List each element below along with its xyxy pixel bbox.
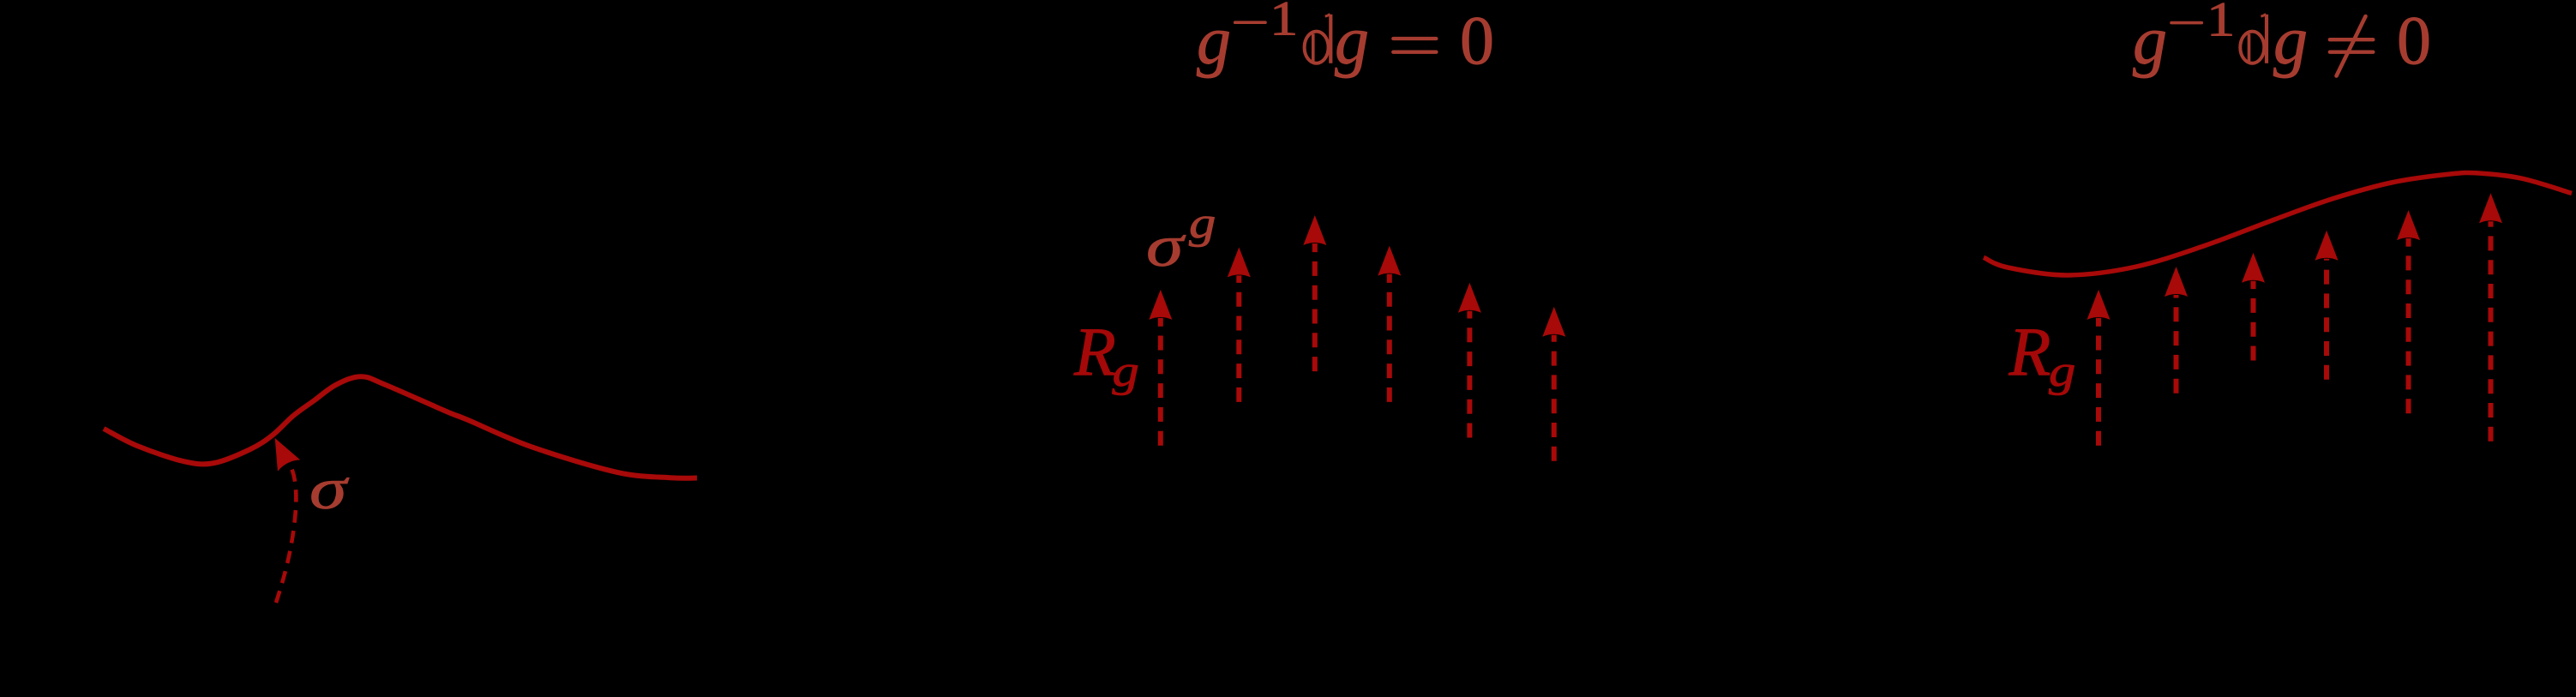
- svg-text:σ: σ: [309, 457, 350, 522]
- svg-text:σ: σ: [1146, 214, 1186, 279]
- svg-text:1: 1: [2207, 0, 2235, 46]
- dashed vertical arrow 5 (right panel): [2397, 210, 2420, 413]
- dashed vertical arrow 4 (right panel): [2315, 231, 2339, 380]
- dashed vertical arrow 2 (middle panel): [1228, 247, 1251, 402]
- svg-text:1: 1: [1270, 0, 1298, 45]
- svg-text:g: g: [1197, 3, 1231, 79]
- dashed vertical arrow 3 (right panel): [2242, 253, 2265, 361]
- svg-text:g: g: [2133, 3, 2167, 79]
- dashed pointer arrow to sigma (left panel): [264, 432, 301, 603]
- curve sigma (left panel section curve): [104, 376, 697, 478]
- svg-text:g: g: [2273, 3, 2308, 79]
- label sigma^g (middle panel): [1146, 199, 1216, 279]
- title right: g^-1 dbar g != 0: [2133, 0, 2431, 79]
- title middle: g^-1 dbar g = 0: [1197, 0, 1494, 79]
- dashed vertical arrow 2 (right panel): [2165, 267, 2188, 394]
- svg-text:0: 0: [2397, 3, 2431, 79]
- dashed vertical arrow 4 (middle panel): [1378, 246, 1401, 402]
- dashed vertical arrow 6 (right panel): [2479, 193, 2502, 442]
- dashed vertical arrow 5 (middle panel): [1458, 283, 1481, 438]
- svg-text:R: R: [1073, 315, 1116, 390]
- svg-text:g: g: [1335, 3, 1369, 79]
- svg-text:g: g: [2049, 347, 2075, 396]
- svg-text:0: 0: [1460, 3, 1494, 79]
- svg-text:R: R: [2009, 315, 2051, 390]
- dashed vertical arrow 1 (middle panel): [1149, 290, 1172, 446]
- svg-text:g: g: [1189, 199, 1216, 248]
- dashed vertical arrow 1 (right panel): [2087, 290, 2111, 446]
- dashed vertical arrow 3 (middle panel): [1303, 215, 1326, 371]
- label R_g (middle panel): [1073, 315, 1139, 396]
- dashed vertical arrow 6 (middle panel): [1542, 307, 1565, 461]
- label R_g (right panel): [2009, 315, 2076, 396]
- svg-text:g: g: [1113, 347, 1139, 396]
- curve sigma^g (right panel section curve): [1984, 172, 2572, 275]
